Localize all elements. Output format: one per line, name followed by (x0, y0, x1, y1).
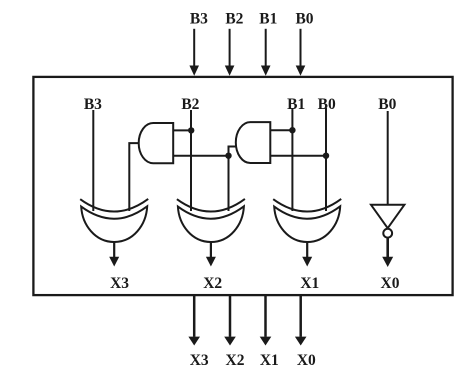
XOR3 output arrow X1 (302, 242, 312, 267)
XOR gate 2 body (178, 206, 244, 242)
output arrow X2 (224, 296, 236, 346)
output arrow X1 (260, 296, 272, 346)
wire AND1 output to XOR1 (129, 143, 138, 211)
converter box outline (33, 77, 452, 295)
label B3 (top input) (190, 10, 208, 27)
output arrow X0 (295, 296, 307, 346)
svg-text:B1: B1 (259, 10, 277, 27)
junction dot B0/AND2 (323, 153, 329, 159)
XOR gate 3 input arc (273, 199, 341, 212)
inverter triangle (371, 205, 404, 228)
wire B2 to XOR2 (190, 110, 192, 211)
wire B0 to XOR3 (325, 108, 327, 211)
label B2 (internal) (181, 96, 199, 113)
input arrow B3 (189, 29, 199, 76)
svg-text:X0: X0 (381, 275, 400, 292)
wire AND2 output node to XOR2 (228, 156, 230, 211)
label X1 (internal) (300, 275, 319, 292)
wire AND1 bottom input from AND2 output (173, 155, 228, 157)
label X1 (bottom output) (260, 352, 279, 369)
input arrow B2 (225, 29, 235, 76)
output arrow X3 (188, 296, 200, 346)
XOR gate 1 body (81, 206, 147, 242)
label X2 (internal) (203, 275, 222, 292)
junction dot B1/AND2 (289, 127, 295, 133)
label X0 (internal) (381, 275, 400, 292)
svg-text:B3: B3 (190, 10, 208, 27)
svg-text:B0: B0 (295, 10, 313, 27)
wire AND2 top input from B1 (270, 129, 292, 131)
wire AND2 output jog (229, 147, 237, 156)
label X3 (internal) (110, 275, 129, 292)
AND gate 1 (faces left) (139, 123, 174, 163)
label B0 (internal, inverter branch) (378, 96, 396, 113)
wire B1 to XOR3 (291, 108, 293, 211)
label X0 (bottom output) (297, 352, 316, 369)
label B0 (internal) (318, 96, 336, 113)
svg-text:B1: B1 (287, 96, 305, 113)
XOR gate 3 body (274, 206, 340, 242)
wire AND1 top input from B2 (173, 129, 191, 131)
wire B0 to inverter (387, 111, 389, 205)
label B1 (internal) (287, 96, 305, 113)
svg-text:X2: X2 (226, 352, 245, 369)
label B2 (top input) (225, 10, 243, 27)
svg-text:X1: X1 (260, 352, 279, 369)
svg-text:X2: X2 (203, 275, 222, 292)
label X3 (bottom output) (190, 352, 209, 369)
svg-text:X3: X3 (110, 275, 129, 292)
label B0 (top input) (295, 10, 313, 27)
label B1 (top input) (259, 10, 277, 27)
junction dot AND2 output node (225, 153, 231, 159)
wire B3 to XOR1 (92, 110, 94, 211)
XOR2 output arrow X2 (206, 242, 216, 267)
junction dot B2/AND1 (188, 127, 194, 133)
input arrow B0 (296, 29, 306, 76)
XOR1 output arrow X3 (109, 242, 119, 267)
inverter output arrow X0 (382, 238, 393, 267)
svg-text:X3: X3 (190, 352, 209, 369)
svg-text:B0: B0 (378, 96, 396, 113)
input arrow B1 (261, 29, 271, 76)
label X2 (bottom output) (226, 352, 245, 369)
svg-text:X0: X0 (297, 352, 316, 369)
label B3 (internal) (84, 96, 102, 113)
wire AND2 bottom input from B0 (270, 155, 326, 157)
XOR gate 2 input arc (177, 199, 245, 212)
XOR gate 1 input arc (80, 199, 148, 212)
inverter output bubble (383, 229, 392, 238)
AND gate 2 (faces left) (236, 122, 270, 163)
svg-text:X1: X1 (300, 275, 319, 292)
svg-text:B2: B2 (225, 10, 243, 27)
